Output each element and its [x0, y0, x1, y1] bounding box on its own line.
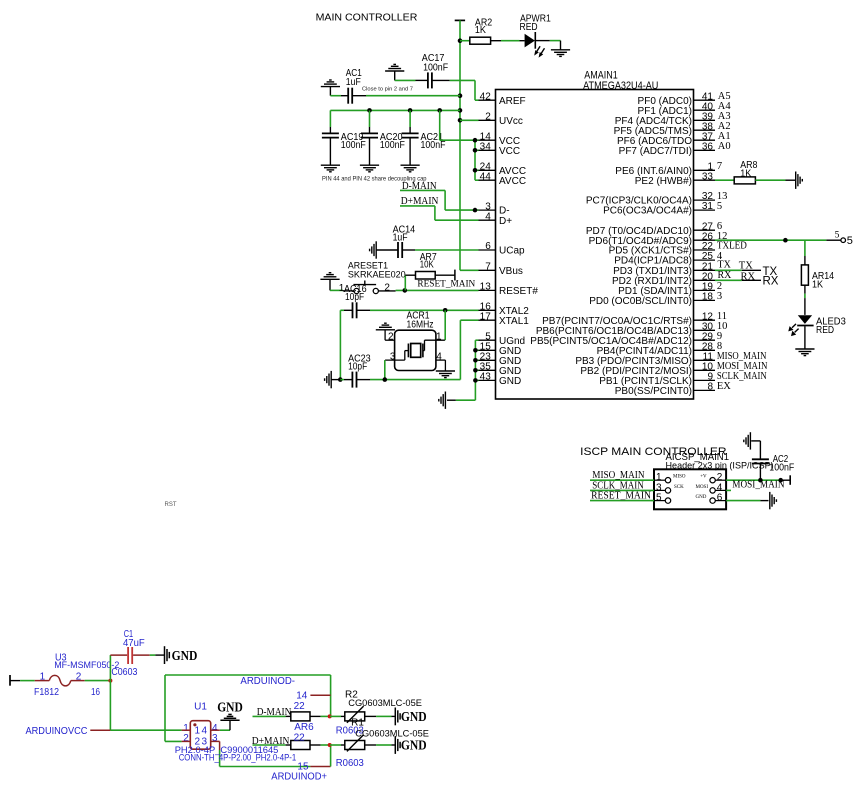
svg-text:PF7 (ADC7/TDI): PF7 (ADC7/TDI) — [619, 146, 692, 157]
junction D- — [328, 714, 332, 718]
svg-text:100nF: 100nF — [380, 140, 405, 151]
ground (GND chain) — [444, 392, 446, 409]
svg-text:4: 4 — [202, 726, 208, 737]
pin 32 PC7(ICP3/CLK0/OC4A) — [694, 199, 716, 201]
net label MOSI_MAIN — [726, 489, 731, 491]
junction rail-AC1 — [458, 93, 463, 98]
svg-text:16MHz: 16MHz — [407, 319, 434, 330]
svg-text:AR6: AR6 — [294, 722, 314, 733]
ground (AR8) — [795, 172, 797, 189]
wire D+MAIN to pin 4 — [400, 205, 435, 207]
wire to AR14 — [804, 240, 806, 256]
pin 40 PF1 (ADC1) — [694, 109, 716, 111]
wire AC17 to pin 42 — [432, 79, 450, 81]
svg-text:RESET_MAIN: RESET_MAIN — [417, 279, 475, 290]
svg-text:RESET#: RESET# — [499, 286, 538, 297]
junction GND35 — [473, 368, 478, 373]
pin 25 PD4(ICP1/ADC8) — [694, 259, 716, 261]
svg-text:UVcc: UVcc — [499, 116, 523, 127]
svg-text:100nF: 100nF — [769, 463, 794, 474]
svg-text:TX: TX — [718, 260, 732, 271]
svg-text:RX: RX — [718, 270, 733, 281]
header pin 3 — [654, 489, 665, 491]
ground (AC1) — [321, 86, 340, 88]
pin 15 GND — [479, 349, 496, 351]
pin 3 D- — [479, 209, 496, 211]
svg-text:14: 14 — [296, 690, 308, 701]
svg-text:42: 42 — [480, 91, 492, 102]
pin 41 PF0 (ADC0) — [694, 99, 716, 101]
pin 16 XTAL2 — [479, 309, 496, 311]
U1 pin 3 lead — [211, 740, 220, 742]
svg-text:1K: 1K — [812, 279, 823, 290]
svg-text:UCap: UCap — [499, 246, 525, 257]
svg-text:10pF: 10pF — [348, 361, 367, 372]
wire UVcc feed — [460, 119, 479, 121]
switch ARESET1 SKRKAEE020 — [330, 289, 343, 291]
wire junction riser — [109, 655, 111, 681]
pin 17 XTAL1 — [479, 319, 496, 321]
svg-text:6: 6 — [485, 241, 491, 252]
svg-text:VCC: VCC — [499, 146, 520, 157]
ground (AC23) — [330, 371, 332, 388]
pin 19 PD1 (SDA/INT1) — [694, 289, 716, 291]
svg-text:RED: RED — [520, 22, 538, 33]
svg-text:18: 18 — [702, 292, 714, 303]
wire AR14 to ALED3 — [804, 285, 806, 293]
wire XTAL1 to AC23 row — [460, 319, 478, 321]
header pin 2 — [715, 479, 726, 481]
resistor AR14 1K — [801, 265, 808, 285]
wire pin 26 net — [715, 239, 826, 241]
svg-text:U1: U1 — [194, 702, 207, 713]
svg-text:D+: D+ — [499, 216, 512, 227]
svg-text:5: 5 — [835, 231, 840, 241]
gnd (R2) — [394, 708, 396, 726]
pin 24 AVCC — [479, 169, 496, 171]
svg-text:PE2 (HWB#): PE2 (HWB#) — [635, 176, 692, 187]
svg-text:3: 3 — [212, 733, 218, 744]
junction pin26 wire — [783, 238, 788, 243]
svg-text:VBus: VBus — [499, 266, 523, 277]
ground (AC21) — [401, 164, 420, 166]
svg-text:CG0603MLC-05E: CG0603MLC-05E — [348, 698, 422, 709]
svg-text:EX: EX — [717, 381, 731, 392]
svg-text:13: 13 — [480, 282, 492, 293]
wire AC1 to rail — [352, 95, 366, 97]
ground (ALED3) — [795, 348, 814, 350]
svg-text:2: 2 — [485, 112, 491, 123]
pin 6 UCap — [479, 249, 496, 251]
capacitor AC23 10pF — [331, 379, 340, 381]
resistor AR8 1K — [715, 179, 734, 181]
varistor R2 CG0603MLC-05E — [345, 712, 365, 721]
ground (AC17) — [385, 70, 404, 72]
pin 7 VBus — [479, 269, 496, 271]
capacitor C1 47uF — [110, 654, 127, 656]
ground (crystal pin4) — [436, 370, 455, 372]
wire SCLK_MAIN — [590, 489, 654, 491]
wire AC23 to XTAL1 — [357, 379, 371, 381]
svg-text:5: 5 — [656, 493, 662, 504]
wire AC14 to UCap pin 6 — [402, 249, 415, 251]
pin 37 PF6 (ADC6/TDO — [694, 139, 716, 141]
ground (crystal pin2) — [376, 329, 395, 331]
svg-text:1: 1 — [40, 672, 46, 683]
junction XTAL2-crystal — [443, 308, 448, 313]
wire R2 to GND — [365, 715, 376, 717]
crystal pin 2 lead — [385, 339, 395, 341]
pin 31 PC6(OC3A/OC4A#) — [694, 209, 716, 211]
pin 20 PD2 (RXD1/INT2) — [694, 279, 716, 281]
pin 13 RESET# — [479, 289, 496, 291]
fuse U3 MF-MSMF050-2 — [35, 680, 50, 682]
svg-text:C0603: C0603 — [111, 667, 137, 678]
svg-text:RX: RX — [741, 272, 756, 283]
wire GND pin 6 — [726, 500, 760, 502]
svg-text:10pF: 10pF — [345, 292, 364, 303]
gnd (C1) — [164, 646, 166, 664]
svg-text:44: 44 — [480, 171, 492, 182]
pin 42 AREF — [479, 99, 496, 101]
svg-text:TX: TX — [739, 261, 753, 272]
svg-text:ARDUINOD+: ARDUINOD+ — [271, 770, 327, 782]
svg-text:1K: 1K — [475, 25, 486, 36]
wire AR2 to APWR1 — [491, 40, 501, 42]
pin 11 PB3 (PDO/PCINT3/MISO) — [694, 359, 716, 361]
wire to varistor R2 — [330, 715, 341, 717]
svg-text:47uF: 47uF — [123, 638, 145, 649]
pin 33 PE2 (HWB#) — [694, 179, 716, 181]
svg-text:7: 7 — [717, 161, 722, 172]
pin 30 PB6(PCINT6/OC1B/OC4B/ADC13) — [694, 329, 716, 331]
svg-text:PC6(OC3A/OC4A#): PC6(OC3A/OC4A#) — [603, 206, 692, 217]
LED ALED3 RED — [798, 315, 812, 324]
svg-text:R0603: R0603 — [336, 758, 364, 769]
wire ARDUINOVCC — [90, 729, 110, 731]
svg-text:43: 43 — [480, 372, 492, 383]
pin 39 PF4 (ADC4/TCK) — [694, 119, 716, 121]
capacitor AC19 100nF — [329, 110, 331, 127]
resistor AR2 1K — [460, 40, 470, 42]
ground (APWR1) — [551, 49, 570, 51]
header pin 4 — [715, 489, 726, 491]
ground (AC20) — [360, 164, 379, 166]
pin 35 GND — [479, 369, 496, 371]
wire to fuse — [20, 680, 35, 682]
wire AC16 to XTAL2 pin 16 — [357, 309, 370, 311]
wire to D+ junction — [330, 745, 332, 767]
svg-text:F1812: F1812 — [34, 687, 59, 698]
svg-text:RX: RX — [763, 276, 779, 288]
pin 38 PF5 (ADC5/TMS) — [694, 129, 716, 131]
pin 34 VCC — [479, 149, 496, 151]
svg-text:GND: GND — [401, 739, 427, 754]
svg-text:36: 36 — [702, 141, 714, 152]
wire D-MAIN to pin 3 — [400, 189, 445, 191]
svg-text:ARDUINOD-: ARDUINOD- — [240, 675, 295, 687]
U1 pin 1 lead — [182, 729, 191, 731]
wire ARDUINOD- loop top — [165, 674, 331, 676]
svg-text:7: 7 — [485, 262, 491, 273]
ground (ARESET1) — [320, 278, 339, 280]
crystal pin 4 lead — [436, 359, 446, 361]
capacitor AC14 1uF — [376, 249, 398, 251]
wire VCC rail vertical — [459, 20, 461, 270]
pin 22 PD5 (XCK1/CTS#) — [694, 249, 716, 251]
pin 26 PD6(T1/OC4D#/ADC9) — [694, 239, 716, 241]
svg-text:31: 31 — [702, 201, 714, 212]
pin 2 UVcc — [479, 119, 496, 121]
svg-text:SCK: SCK — [674, 485, 684, 490]
svg-text:PB0(SS/PCINT0): PB0(SS/PCINT0) — [615, 386, 692, 397]
svg-text:2: 2 — [384, 283, 390, 294]
junction AR7 — [403, 288, 408, 293]
junction AC2 — [758, 478, 763, 483]
resistor AR7 10K — [404, 275, 406, 290]
pin 18 PD0 (OC0B/SCL/INT0) — [694, 299, 716, 301]
junction GND15 — [473, 348, 478, 353]
svg-text:3: 3 — [717, 291, 722, 302]
varistor R1 CG0603MLC-05E — [345, 741, 365, 750]
svg-text:17: 17 — [480, 311, 492, 322]
capacitor AC1 1uF — [330, 95, 341, 97]
junction VCC feed — [437, 108, 442, 113]
terminal bar (fuse input) — [9, 675, 11, 686]
svg-text:16: 16 — [91, 687, 100, 698]
junction pin24 — [473, 168, 478, 173]
ground (AC14) — [375, 241, 377, 258]
pin 43 GND — [479, 379, 496, 381]
svg-text:AVCC: AVCC — [499, 176, 526, 187]
svg-text:100nF: 100nF — [423, 62, 448, 73]
pin 12 PB7(PCINT7/OC0A/OC1C/RTS#) — [694, 319, 716, 321]
svg-text:2: 2 — [388, 331, 394, 342]
junction GND23 — [473, 358, 478, 363]
wire loop left — [164, 675, 166, 741]
svg-text:4: 4 — [436, 351, 442, 362]
wire GND chain — [475, 339, 478, 341]
junction D+ — [328, 743, 332, 747]
wire RX — [715, 279, 742, 281]
junction AC20 — [367, 108, 372, 113]
svg-text:1uF: 1uF — [393, 232, 408, 243]
svg-text:R1: R1 — [351, 718, 364, 729]
svg-text:1K: 1K — [740, 168, 751, 179]
wire TX — [715, 269, 742, 271]
wire ALED3 to ground — [804, 326, 806, 349]
header pin 1 — [654, 479, 665, 481]
pin 9 PB1 (PCINT1/SCLK) — [694, 379, 716, 381]
svg-text:RST: RST — [165, 502, 177, 508]
junction AC23 left — [338, 377, 343, 382]
pin 4 D+ — [479, 219, 496, 221]
wire D+MAIN — [253, 744, 286, 746]
junction power bar — [778, 478, 783, 483]
junction pin34 — [473, 148, 478, 153]
svg-text:4: 4 — [485, 211, 491, 222]
svg-text:5: 5 — [847, 235, 853, 247]
svg-text:XTAL1: XTAL1 — [499, 316, 529, 327]
svg-text:+V: +V — [700, 475, 707, 480]
svg-text:GND: GND — [172, 649, 198, 664]
U1 pin 4 lead — [211, 729, 220, 731]
svg-text:5: 5 — [717, 201, 722, 212]
U1 pin 2 lead — [182, 740, 191, 742]
svg-text:1: 1 — [436, 331, 442, 342]
svg-text:GND: GND — [499, 376, 521, 387]
svg-text:2: 2 — [183, 733, 189, 744]
junction rail-UVcc — [458, 118, 463, 123]
svg-text:6: 6 — [717, 493, 723, 504]
wire loop right — [330, 675, 332, 716]
power bar (ISCP) — [789, 475, 791, 485]
junction pin 3 — [473, 208, 478, 213]
svg-text:1uF: 1uF — [346, 77, 361, 88]
svg-text:34: 34 — [480, 142, 492, 153]
wire R1 to GND — [365, 744, 376, 746]
terminal circle 5 — [841, 238, 846, 243]
LED APWR1 RED — [525, 34, 535, 48]
pin 21 PD3 (TXD1/INT3) — [694, 269, 716, 271]
svg-text:3: 3 — [390, 351, 396, 362]
wire +V pin 2 — [726, 479, 781, 481]
crystal ACR1 16MHz — [395, 330, 436, 370]
capacitor AC21 100nF — [409, 110, 411, 127]
svg-text:GND: GND — [217, 701, 243, 716]
junction fuse/C1 — [108, 679, 112, 683]
svg-text:Close to pin 2 and 7: Close to pin 2 and 7 — [362, 87, 413, 93]
svg-text:PD0 (OC0B/SCL/INT0): PD0 (OC0B/SCL/INT0) — [589, 296, 692, 307]
svg-text:100nF: 100nF — [421, 140, 446, 151]
pin 1 PE6 (INT.6/AIN0) — [694, 169, 716, 171]
wire switch to RESET_MAIN — [379, 290, 396, 292]
wire crystal pin1 riser — [444, 310, 446, 340]
capacitor AC2 100nF — [759, 464, 761, 480]
pin 36 PF7 (ADC7/TDI) — [694, 149, 716, 151]
pin 23 GND — [479, 359, 496, 361]
pin 14 VCC — [479, 139, 496, 141]
svg-text:RESET_MAIN: RESET_MAIN — [591, 491, 651, 502]
svg-text:GND: GND — [696, 495, 707, 500]
ground (AC19) — [321, 164, 340, 166]
svg-text:100nF: 100nF — [341, 140, 366, 151]
svg-text:22: 22 — [294, 701, 306, 712]
capacitor AC16 10pF — [340, 309, 344, 311]
header pin 6 — [715, 500, 726, 502]
svg-text:22: 22 — [294, 733, 306, 744]
junction rail-decoupling — [458, 108, 463, 113]
junction pin14 — [473, 138, 478, 143]
pin 27 PD7 (T0/OC4D/ADC10) — [694, 229, 716, 231]
wire RESET_MAIN — [590, 500, 654, 502]
wire APWR1 to ground — [535, 40, 550, 42]
ground (ISCP pin6) — [769, 492, 771, 509]
svg-text:A0: A0 — [718, 141, 731, 152]
wire VCC/AVCC feed — [439, 110, 441, 140]
wire to varistor R1 — [330, 744, 341, 746]
svg-text:ATMEGA32U4-AU: ATMEGA32U4-AU — [583, 80, 658, 92]
junction rail-AR2 — [458, 38, 463, 43]
resistor AR6 22 — [286, 715, 291, 717]
svg-text:33: 33 — [702, 171, 714, 182]
svg-text:SKRKAEE020: SKRKAEE020 — [348, 270, 406, 281]
wire D-MAIN — [253, 715, 286, 717]
crystal pin 3 riser — [384, 360, 386, 380]
svg-text:AREF: AREF — [499, 96, 526, 107]
pin 8 PB0(SS/PCINT0) — [694, 389, 716, 391]
IC AMAIN1 ATMEGA32U4-AU body — [496, 90, 694, 400]
pin 10 PB2 (PDI/PCINT2/MOSI) — [694, 369, 716, 371]
header pin 5 — [654, 500, 665, 502]
svg-text:CONN-TH_4P-P2.00_PH2.0-4P-1: CONN-TH_4P-P2.00_PH2.0-4P-1 — [179, 753, 297, 764]
wire fuse to junction — [85, 680, 111, 682]
junction GND43 — [473, 378, 478, 383]
svg-text:MOSI: MOSI — [696, 485, 709, 490]
svg-text:MAIN CONTROLLER: MAIN CONTROLLER — [316, 13, 418, 24]
svg-text:MOSI_MAIN: MOSI_MAIN — [732, 479, 785, 490]
wire decoupling rail — [330, 109, 460, 111]
svg-text:GND: GND — [401, 710, 427, 725]
pin 29 PB5(PCINT5/OC1A/OC4B#/ADC12) — [694, 339, 716, 341]
ground (AC2) — [749, 432, 751, 449]
pin stub 15 — [310, 766, 330, 768]
svg-text:ARDUINOVCC: ARDUINOVCC — [26, 725, 88, 737]
gnd (R1) — [394, 736, 396, 754]
wire AC16 left riser — [339, 310, 341, 379]
wire AR8 to ground — [755, 179, 785, 181]
pin 28 PB4(PCINT4/ADC11) — [694, 349, 716, 351]
capacitor AC20 100nF — [369, 110, 371, 127]
svg-text:2: 2 — [76, 672, 82, 683]
junction crystal pin3 — [383, 377, 388, 382]
svg-text:10K: 10K — [420, 259, 434, 270]
pin 44 AVCC — [479, 179, 496, 181]
resistor 22 (D+) — [286, 744, 291, 746]
gnd (U1 pin4) — [229, 720, 231, 730]
wire C1 to GND — [150, 654, 156, 656]
junction AC21 — [408, 108, 413, 113]
svg-text:RED: RED — [816, 325, 834, 336]
wire AR7 right with end bar — [435, 274, 455, 276]
wire MISO_MAIN — [590, 479, 654, 481]
svg-text:MISO: MISO — [673, 475, 686, 480]
wire rail to VBus pin 7 — [460, 269, 479, 271]
svg-text:1: 1 — [195, 726, 201, 737]
capacitor AC17 100nF — [395, 79, 416, 81]
pin 5 UGnd — [479, 339, 496, 341]
svg-text:8: 8 — [707, 382, 713, 393]
power bar (top rail terminal) — [455, 19, 465, 21]
